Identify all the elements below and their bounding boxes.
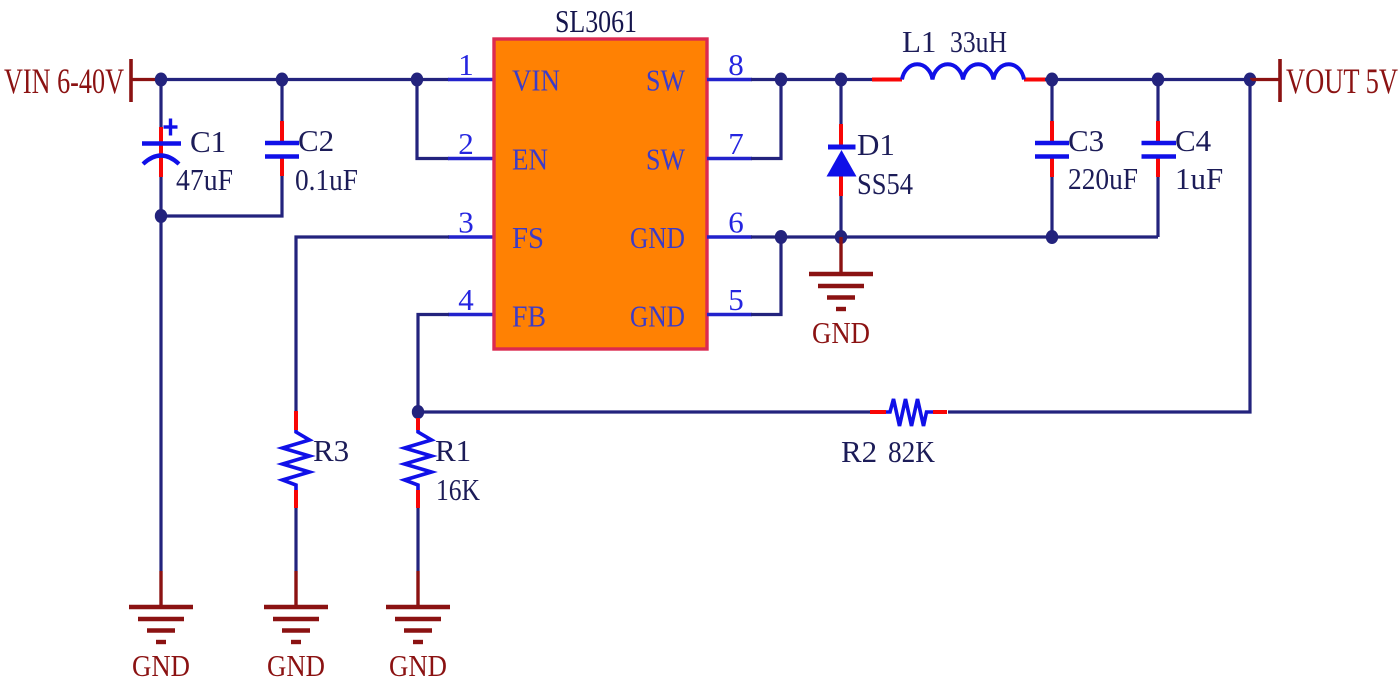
svg-text:6: 6 xyxy=(728,205,744,240)
capacitor C2 top lead (red) xyxy=(280,121,284,141)
node FB junction xyxy=(412,405,424,419)
wire EN drop vertical xyxy=(417,80,449,159)
wire R3 to ground xyxy=(294,508,297,571)
svg-text:GND: GND xyxy=(132,648,190,683)
svg-text:SW: SW xyxy=(646,142,686,177)
svg-text:47uF: 47uF xyxy=(176,162,233,197)
capacitor C4 plates xyxy=(1142,143,1177,157)
wire C2 top vertical xyxy=(280,80,283,122)
inductor L1 coil arcs xyxy=(902,64,1024,79)
wire D1 top vertical xyxy=(839,80,842,126)
svg-text:VIN: VIN xyxy=(512,63,560,98)
wire C3 bottom vertical xyxy=(1050,177,1053,237)
diode D1 triangle xyxy=(827,150,857,177)
svg-text:SL3061: SL3061 xyxy=(555,3,637,39)
svg-text:C4: C4 xyxy=(1175,123,1212,158)
svg-text:D1: D1 xyxy=(857,127,895,162)
node VOUT junction xyxy=(1244,73,1256,87)
wire C4 bottom vertical xyxy=(1156,177,1159,237)
capacitor C1 curved plate xyxy=(143,156,179,165)
svg-text:1uF: 1uF xyxy=(1175,161,1223,196)
resistor R3 top lead (red) xyxy=(294,411,298,430)
node C2 top junction xyxy=(276,73,288,87)
pin 6 stub xyxy=(707,235,752,239)
capacitor C1 plus sign xyxy=(164,119,178,136)
svg-text:3: 3 xyxy=(458,205,474,240)
node C1 top junction xyxy=(155,73,167,87)
wire C2 bottom to node C1 xyxy=(161,176,282,216)
capacitor C4 bottom lead (red) xyxy=(1156,158,1160,177)
svg-text:2: 2 xyxy=(458,126,474,161)
svg-text:R1: R1 xyxy=(435,433,471,468)
svg-text:SW: SW xyxy=(646,63,686,98)
node C3 top junction xyxy=(1046,73,1058,87)
wire top rail left: node C1 to IC pin1 xyxy=(159,78,449,81)
svg-text:C3: C3 xyxy=(1068,123,1104,158)
wire C3 top vertical xyxy=(1050,80,1053,122)
capacitor C3 bottom lead (red) xyxy=(1050,158,1054,177)
resistor R1 top lead (red) xyxy=(416,418,420,430)
wire pin5 up-link xyxy=(751,237,781,315)
node EN tap junction xyxy=(411,73,423,87)
resistor R2 left lead (red) xyxy=(870,410,886,414)
resistor R3 bottom lead (red) xyxy=(294,490,298,508)
resistor R3 zigzag xyxy=(283,430,310,490)
pin 5 stub xyxy=(707,313,752,317)
inductor L1 left lead (red) xyxy=(872,78,902,82)
capacitor C1 lead (red) xyxy=(159,127,163,177)
svg-text:C2: C2 xyxy=(298,123,334,158)
node GND rail junction pin5 xyxy=(775,230,787,244)
node D1 bottom junction xyxy=(835,230,847,244)
wire FS run: pin3 left and down to R3 xyxy=(296,237,449,412)
capacitor C2 plates xyxy=(265,143,299,157)
svg-text:FB: FB xyxy=(512,299,546,334)
svg-text:GND: GND xyxy=(812,315,870,350)
capacitor C3 plates xyxy=(1035,143,1069,157)
svg-text:SS54: SS54 xyxy=(857,166,913,201)
svg-text:R2: R2 xyxy=(841,434,877,469)
wire VOUT node to port (maroon) xyxy=(1250,78,1280,81)
wire R2 to VOUT riser xyxy=(948,80,1250,413)
svg-text:FS: FS xyxy=(512,220,544,255)
pin 7 stub xyxy=(707,157,752,161)
wire R1 to ground xyxy=(416,508,419,571)
capacitor C1 top plate xyxy=(142,141,181,146)
svg-text:VOUT 5V: VOUT 5V xyxy=(1286,61,1398,101)
ground symbol under R3 xyxy=(264,571,328,642)
wire GND rail: pin6 to C4 xyxy=(751,235,1158,238)
wire C4 top vertical xyxy=(1156,80,1159,122)
node SW junction xyxy=(775,73,787,87)
svg-text:GND: GND xyxy=(389,648,447,683)
capacitor C2 bottom lead (red) xyxy=(280,158,284,176)
resistor R1 bottom lead (red) xyxy=(416,490,420,508)
svg-text:GND: GND xyxy=(267,648,325,683)
wire C1 bottom vertical to ground xyxy=(159,177,162,571)
IC U1 SL3061 body xyxy=(494,39,707,349)
wire FB node to R2 xyxy=(418,410,872,413)
resistor R2 right lead (red) xyxy=(933,410,947,414)
svg-text:7: 7 xyxy=(728,126,744,161)
pin 3 stub xyxy=(448,235,494,239)
svg-text:1: 1 xyxy=(458,47,474,82)
ground symbol under D1 xyxy=(809,237,873,309)
wire SW rail: pin8 to L1 xyxy=(751,78,872,81)
svg-text:C1: C1 xyxy=(190,124,226,159)
resistor R1 zigzag xyxy=(405,430,432,490)
svg-text:0.1uF: 0.1uF xyxy=(295,162,358,197)
wire C1 top vertical xyxy=(159,80,162,128)
ground symbol under C1 xyxy=(129,571,193,642)
node C1 bottom junction xyxy=(155,209,167,223)
wire FB run: pin4 left and down to node FB xyxy=(418,315,449,413)
wire VIN port to node (maroon) xyxy=(131,78,160,81)
wire L1 to VOUT node xyxy=(1045,78,1249,81)
inductor L1 right lead (red) xyxy=(1024,78,1046,82)
svg-text:16K: 16K xyxy=(436,472,481,507)
port VIN terminal bar xyxy=(129,59,133,102)
node D1 top junction xyxy=(835,73,847,87)
svg-text:EN: EN xyxy=(512,142,548,177)
svg-text:4: 4 xyxy=(458,282,474,317)
svg-text:82K: 82K xyxy=(888,434,936,469)
svg-text:220uF: 220uF xyxy=(1068,161,1138,196)
wire pin7 up-link xyxy=(751,80,781,159)
node C4 top junction xyxy=(1152,73,1164,87)
diode D1 anode lead (red) xyxy=(839,176,843,196)
svg-text:GND: GND xyxy=(630,220,685,255)
diode D1 cathode lead (red) xyxy=(839,124,843,147)
svg-text:8: 8 xyxy=(728,47,744,82)
pin 4 stub xyxy=(448,313,494,317)
pin 1 stub xyxy=(448,78,494,82)
resistor R2 zigzag xyxy=(886,399,933,426)
svg-text:L1: L1 xyxy=(902,24,936,59)
capacitor C3 top lead (red) xyxy=(1050,121,1054,141)
capacitor C4 top lead (red) xyxy=(1156,121,1160,141)
port VOUT terminal bar xyxy=(1278,59,1282,102)
svg-text:GND: GND xyxy=(630,299,685,334)
svg-text:R3: R3 xyxy=(313,433,349,468)
pin 8 stub xyxy=(707,78,752,82)
pin 2 stub xyxy=(448,157,494,161)
diode D1 cathode bar xyxy=(828,145,856,150)
svg-text:33uH: 33uH xyxy=(950,24,1007,59)
ground symbol under R1 xyxy=(386,571,450,642)
wire D1 bottom vertical xyxy=(839,195,842,237)
node C3 bottom junction xyxy=(1046,230,1058,244)
svg-text:VIN 6-40V: VIN 6-40V xyxy=(4,61,124,101)
svg-text:5: 5 xyxy=(728,282,744,317)
